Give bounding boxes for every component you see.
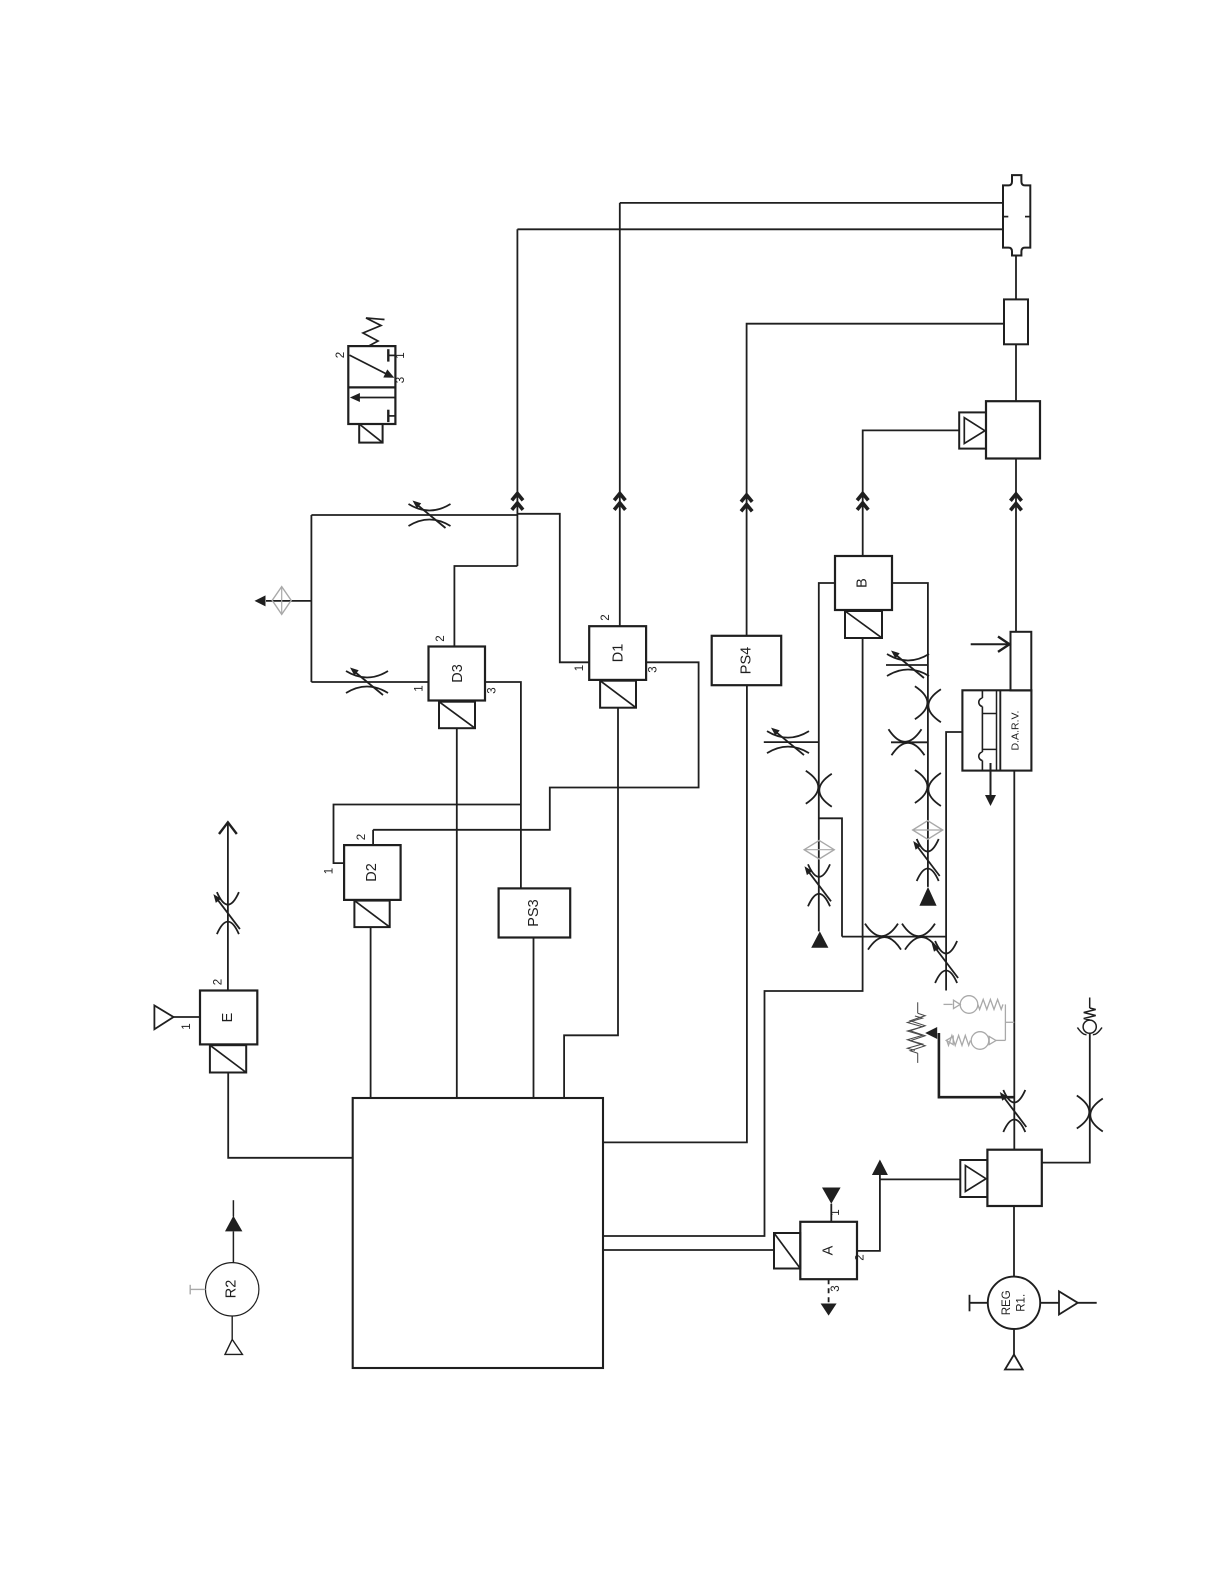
R2 bottom open triangle bbox=[225, 1316, 242, 1354]
svg-text:3: 3 bbox=[395, 377, 407, 383]
wire D3 port 3 to PS3 bbox=[485, 682, 521, 888]
exhaust muffler line A bbox=[811, 931, 828, 947]
solenoid of D3 bbox=[439, 702, 475, 729]
trunk wire DARV to lower booster bbox=[1013, 771, 1015, 1150]
valve E box bbox=[200, 991, 257, 1045]
solenoid of B bbox=[845, 611, 882, 638]
wire bleed stub on line A bbox=[764, 741, 819, 743]
svg-text:2: 2 bbox=[213, 979, 225, 985]
flow control valve (top-left upper) bbox=[409, 501, 451, 529]
check valve on line C lower bbox=[915, 770, 941, 806]
svg-text:R1.: R1. bbox=[1016, 1294, 1028, 1312]
check valve transfer 1 bbox=[865, 924, 901, 950]
svg-text:D3: D3 bbox=[450, 664, 466, 683]
wire left vertical bbox=[310, 515, 312, 682]
wire to D3 port 2 bbox=[454, 566, 517, 647]
A port 2 wire with up arrow bbox=[857, 1160, 960, 1251]
inline cylinder/booster body (top right) bbox=[1003, 175, 1030, 255]
svg-text:2: 2 bbox=[600, 614, 612, 620]
flow control valve (DARV bleed) bbox=[932, 941, 959, 983]
wire D1 port 3 to D2 port 2 bbox=[373, 662, 698, 830]
E port 2 vent line with arrow bbox=[219, 822, 237, 990]
check valve transfer 2 bbox=[902, 924, 938, 950]
pilot valve body (lower) bbox=[987, 1150, 1041, 1206]
flow control valve on E vent bbox=[213, 892, 240, 934]
exhaust muffler line C bbox=[919, 887, 936, 906]
R2 gray T vent bbox=[190, 1285, 205, 1295]
wire D2 port 1 to PS3/D3 node bbox=[334, 805, 521, 864]
svg-text:D1: D1 bbox=[611, 644, 627, 663]
wire bleed stub upper on line C bbox=[886, 664, 928, 666]
DARV exhaust arrow down bbox=[985, 763, 996, 806]
svg-text:2: 2 bbox=[356, 834, 368, 840]
solenoid of D1 bbox=[600, 681, 636, 708]
trunk wire rect to booster bbox=[1015, 344, 1017, 401]
chevrons on trunk bbox=[1010, 494, 1021, 510]
chevrons on D1 line bbox=[614, 494, 625, 510]
check valve on line A bbox=[806, 771, 832, 807]
wire spool upper port to left bbox=[620, 202, 1003, 204]
pressure switch PS3 box bbox=[499, 888, 571, 937]
pilot valve body (upper) bbox=[986, 401, 1040, 458]
svg-text:R2: R2 bbox=[224, 1280, 240, 1299]
svg-text:2: 2 bbox=[435, 635, 447, 641]
control box (large rectangle) bbox=[353, 1098, 603, 1368]
pilot triangle box (upper) bbox=[959, 412, 986, 448]
svg-text:3: 3 bbox=[648, 666, 660, 672]
floating 3/2 valve symbol bbox=[348, 318, 395, 424]
svg-text:PS4: PS4 bbox=[739, 647, 755, 674]
check valve on line C stub bbox=[889, 729, 925, 755]
solenoid of A bbox=[774, 1233, 800, 1269]
svg-text:1: 1 bbox=[395, 352, 407, 358]
E port 1 open triangle bbox=[154, 1006, 200, 1030]
wire PS3 to control box bbox=[533, 938, 535, 1099]
wire vertical to D1 port 2 bbox=[619, 203, 621, 626]
wire D1 port 1 branch bbox=[517, 514, 589, 663]
wire PS4 bottom to control box bbox=[603, 685, 747, 1142]
trunk wire booster to REG R1 bbox=[1013, 1206, 1015, 1277]
exhaust diamond (gray) bbox=[272, 587, 291, 615]
svg-text:E: E bbox=[220, 1012, 236, 1022]
A port 3 dashed exhaust bbox=[821, 1279, 837, 1315]
valve D3 box bbox=[429, 647, 486, 701]
wire spool lower port to left bbox=[517, 228, 1003, 230]
pressure regulator R2 bbox=[206, 1200, 259, 1316]
pilot triangle box (lower) bbox=[960, 1160, 987, 1197]
svg-text:REG: REG bbox=[1001, 1290, 1013, 1315]
wire line B from B solenoid to control box bbox=[603, 638, 863, 1236]
wire A solenoid to control box bbox=[603, 1249, 774, 1251]
wire transfer line bbox=[842, 936, 946, 938]
solenoid of floating valve bbox=[359, 424, 382, 443]
chevrons on PS4 line bbox=[741, 495, 752, 511]
D.A.R.V. valve block bbox=[962, 690, 1031, 770]
spring-loaded relief valve bbox=[1077, 998, 1102, 1035]
wire line A from B valve left bbox=[819, 583, 835, 931]
valve D1 box bbox=[589, 626, 646, 680]
valve D2 box bbox=[344, 845, 401, 900]
valve B box bbox=[835, 556, 892, 610]
wire E solenoid to control box bbox=[228, 1073, 353, 1158]
trunk wire booster to DARV rect bbox=[1015, 459, 1017, 632]
valve A box bbox=[800, 1222, 857, 1279]
wire D2 solenoid to control box bbox=[370, 927, 372, 1098]
manual adjust arrow into rectangle bbox=[971, 637, 1010, 652]
pressure switch PS4 box bbox=[712, 636, 782, 685]
filter diamond on line A bbox=[804, 840, 834, 859]
wire D3 solenoid to control box bbox=[456, 728, 458, 1098]
svg-text:3: 3 bbox=[487, 687, 499, 693]
gray gauge circuit (pressure gauges with springs) bbox=[944, 996, 1015, 1050]
wire exhaust stub bbox=[266, 600, 311, 602]
svg-text:PS3: PS3 bbox=[526, 899, 542, 926]
wire DARV pilot bleed bbox=[946, 732, 962, 991]
svg-text:3: 3 bbox=[830, 1285, 842, 1291]
pilot wire with left arrow bbox=[925, 1027, 1014, 1097]
svg-text:B: B bbox=[855, 578, 871, 588]
A port 1 with supply triangle bbox=[822, 1188, 841, 1222]
wire D2 port 2 stub bbox=[372, 830, 374, 845]
wire PS4 top to inline rect bbox=[747, 324, 1004, 636]
flow control valve on line C bbox=[913, 839, 940, 881]
svg-text:2: 2 bbox=[335, 352, 347, 358]
flow control valve on line A bbox=[805, 864, 832, 906]
trunk wire spool to rect bbox=[1015, 256, 1017, 300]
inline component rectangle (upper trunk) bbox=[1004, 299, 1028, 344]
svg-text:1: 1 bbox=[414, 685, 426, 691]
wire jog from line A down to transfer line bbox=[819, 818, 842, 936]
chevrons on B pilot line bbox=[857, 494, 868, 510]
REG bottom open triangle (air supply) bbox=[1005, 1329, 1023, 1370]
inline component rectangle above DARV bbox=[1011, 632, 1032, 691]
wire D1 solenoid to control box bbox=[564, 708, 618, 1098]
flow control valve (to D3 port1) bbox=[346, 668, 388, 696]
check valve on line C upper bbox=[915, 686, 941, 722]
svg-text:1: 1 bbox=[181, 1023, 193, 1029]
flow control valve on trunk bbox=[1000, 1090, 1027, 1132]
wire to D3 port 1 bbox=[311, 681, 428, 683]
svg-text:A: A bbox=[821, 1245, 837, 1255]
chevrons on D3 line bbox=[512, 494, 523, 510]
exhaust arrow left bbox=[255, 595, 266, 606]
wire booster right branch to relief valve bbox=[1042, 1033, 1090, 1162]
wire top-left horizontal bbox=[311, 514, 517, 516]
wire vertical to D3 circuit bbox=[516, 229, 518, 566]
svg-text:D2: D2 bbox=[364, 863, 380, 882]
wire stub with check valve on line C bbox=[891, 741, 928, 743]
flow control valve (line C stub) bbox=[887, 651, 929, 679]
svg-text:1: 1 bbox=[830, 1209, 842, 1215]
svg-text:D.A.R.V.: D.A.R.V. bbox=[1010, 711, 1022, 751]
flow control valve (line A stub) bbox=[767, 728, 809, 756]
REG right open triangle port bbox=[1040, 1291, 1097, 1314]
wire B valve top to pilot (upper booster) bbox=[863, 430, 960, 556]
check valve on relief branch bbox=[1077, 1096, 1103, 1132]
regulator REG R1 circle bbox=[988, 1277, 1040, 1329]
svg-text:1: 1 bbox=[324, 868, 336, 874]
solenoid of E bbox=[210, 1045, 246, 1072]
svg-text:1: 1 bbox=[574, 665, 586, 671]
svg-text:2: 2 bbox=[855, 1254, 867, 1260]
pilot spring (regulator spring) bbox=[907, 1002, 925, 1063]
filter diamond on line C bbox=[913, 821, 943, 840]
REG T vent left bbox=[970, 1295, 988, 1312]
solenoid of D2 bbox=[354, 901, 389, 928]
wire line C from B valve right bbox=[892, 583, 928, 887]
